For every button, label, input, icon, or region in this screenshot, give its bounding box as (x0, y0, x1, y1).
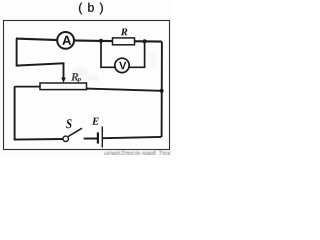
voltmeter V (115, 58, 129, 72)
label R (121, 29, 128, 36)
wire: stub between switch and battery (84, 138, 97, 140)
ammeter A (57, 32, 74, 49)
wire: top wire through ammeter and R (16, 39, 162, 42)
wire: middle wire right segment (86, 89, 161, 91)
node junction dot middle right (160, 89, 164, 93)
node junction dot left of R (99, 39, 103, 43)
label S (66, 119, 71, 128)
battery E short plate (97, 132, 99, 143)
wire: right vertical (161, 42, 163, 137)
label E (92, 118, 99, 125)
wire: voltmeter branch (101, 41, 115, 68)
rheostat slider arrow (61, 78, 66, 83)
wire: top-left vertical down to slider arm (17, 39, 64, 78)
switch S blade (68, 128, 82, 136)
label RP (71, 73, 78, 81)
wire: bottom wire left segment to switch (14, 138, 63, 141)
figure label (b) (79, 3, 103, 14)
rheostat RP body (40, 83, 87, 90)
switch S pivot circle (63, 136, 68, 141)
resistor R (113, 38, 135, 45)
wire: bottom wire right segment (103, 137, 161, 138)
battery E long plate (101, 126, 103, 147)
wire: middle wire left segment (14, 86, 40, 88)
watermark text at page edge (104, 150, 170, 157)
wire: bottom-left vertical (14, 87, 16, 140)
node junction dot right of R (143, 39, 147, 43)
